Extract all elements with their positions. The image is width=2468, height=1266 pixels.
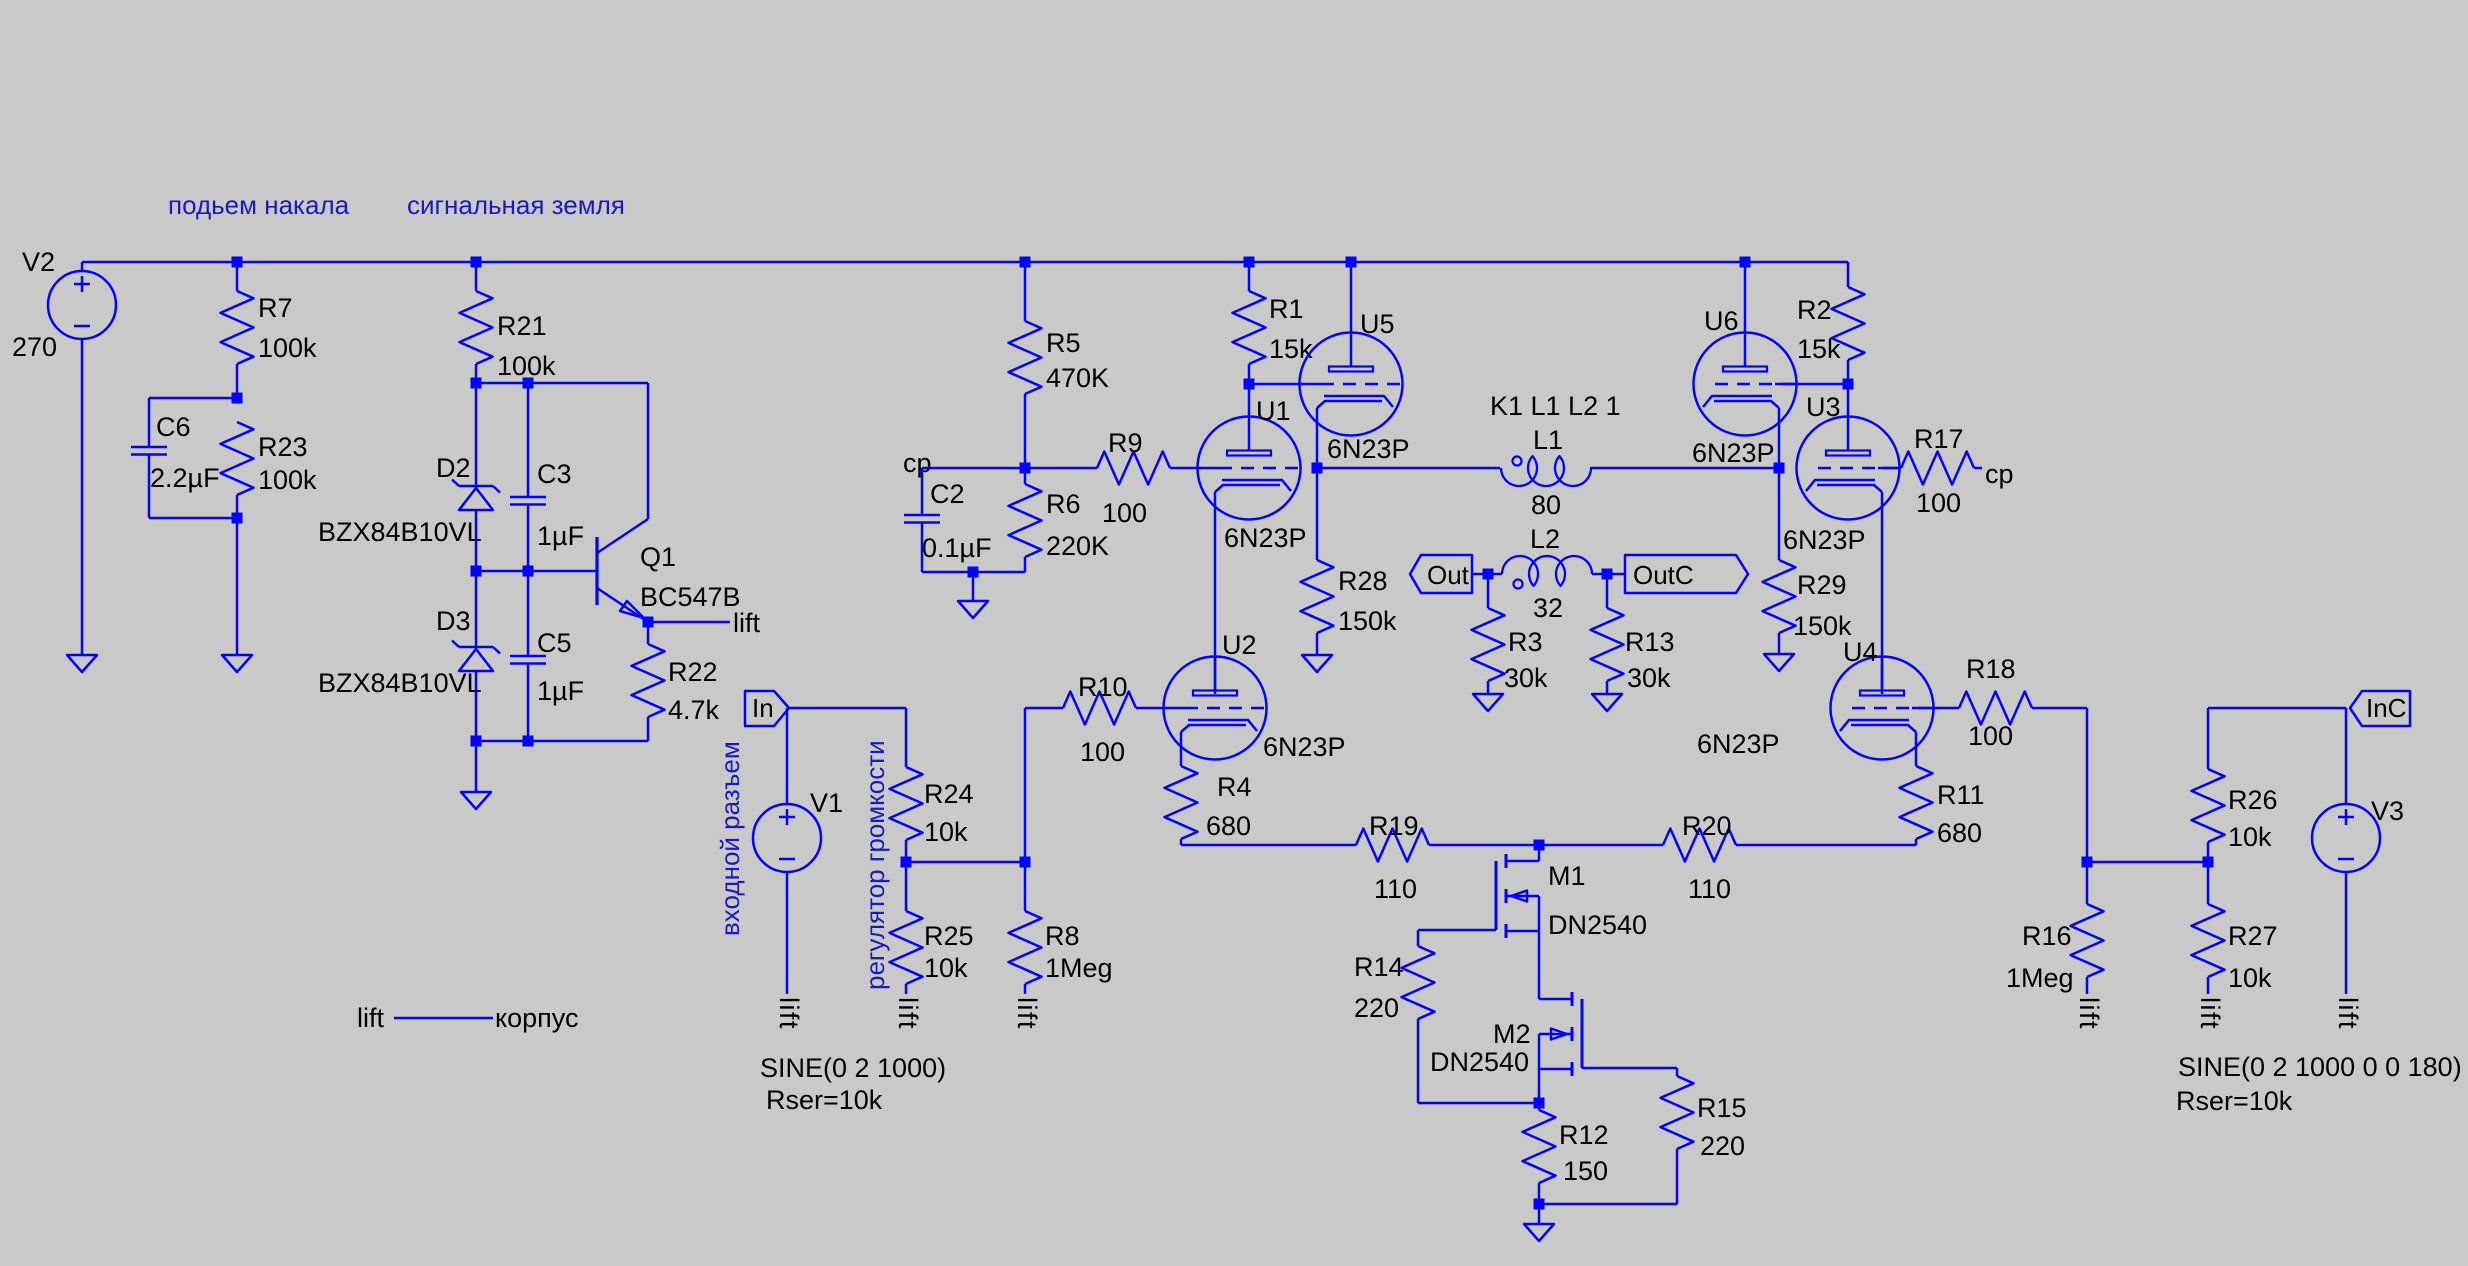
wire R21 bottom lead xyxy=(475,364,478,383)
wire bottom row to R22 xyxy=(476,740,648,743)
port flag In xyxy=(745,691,789,726)
voltage source V2 xyxy=(81,262,84,271)
node: D2/C3/base junction row xyxy=(471,566,482,577)
svg-text:R11: R11 xyxy=(1937,780,1985,810)
svg-text:подьем накала: подьем накала xyxy=(168,190,350,220)
svg-text:lift: lift xyxy=(357,1003,384,1033)
wire: main B+ bus xyxy=(82,261,1848,264)
svg-text:R18: R18 xyxy=(1966,654,2016,684)
svg-text:U2: U2 xyxy=(1222,630,1257,660)
node: R8 top junction xyxy=(1020,857,1031,868)
node: U6 cathode / L1 right junction xyxy=(1774,463,1785,474)
svg-text:Q1: Q1 xyxy=(640,542,676,572)
triode U3 grid (dashed) xyxy=(1878,467,1900,470)
svg-text:BZX84B10VL: BZX84B10VL xyxy=(318,668,482,698)
wire R26 to InC xyxy=(2208,707,2346,710)
svg-text:4.7k: 4.7k xyxy=(668,695,720,725)
node: R2/U6-grid/U3-plate junction xyxy=(1843,379,1854,390)
svg-text:DN2540: DN2540 xyxy=(1430,1047,1529,1077)
svg-text:lift: lift xyxy=(774,997,804,1030)
voltage source V1 symbol xyxy=(753,804,821,872)
wire R3 top lead xyxy=(1487,574,1490,608)
svg-text:6N23P: 6N23P xyxy=(1697,729,1780,759)
resistor R6 body xyxy=(1009,484,1042,557)
node: ground junction under C2 xyxy=(968,567,979,578)
svg-text:150: 150 xyxy=(1563,1156,1608,1186)
zener diode D3 xyxy=(459,646,493,649)
wire D3 top lead xyxy=(475,571,478,647)
wire C3 bottom lead xyxy=(527,505,530,572)
ground under R28 xyxy=(1302,655,1332,672)
resistor R7 body xyxy=(221,291,254,364)
triode U1 plate xyxy=(1227,451,1271,456)
wire R17 to cp xyxy=(1974,467,1982,470)
node: R23/C6 bottom junction xyxy=(232,513,243,524)
node: bottom junction row D3/C5/R22 xyxy=(471,736,482,747)
wire U6 cathode lead xyxy=(1778,408,1781,468)
svg-text:V2: V2 xyxy=(22,247,55,277)
svg-text:C2: C2 xyxy=(930,479,965,509)
svg-text:V1: V1 xyxy=(810,788,843,818)
svg-text:D3: D3 xyxy=(436,606,471,636)
svg-text:680: 680 xyxy=(1206,811,1251,841)
node: bus junction at U5 plate xyxy=(1346,257,1357,268)
svg-text:1Meg: 1Meg xyxy=(1045,953,1113,983)
svg-text:OutC: OutC xyxy=(1633,560,1694,590)
wire D2 top lead xyxy=(475,383,478,486)
triode U2 grid (dashed) xyxy=(1164,707,1186,710)
svg-text:V3: V3 xyxy=(2371,796,2404,826)
svg-text:R10: R10 xyxy=(1078,672,1128,702)
svg-text:BZX84B10VL: BZX84B10VL xyxy=(318,517,482,547)
svg-text:R4: R4 xyxy=(1217,772,1252,802)
svg-text:Out: Out xyxy=(1427,560,1470,590)
svg-text:2.2µF: 2.2µF xyxy=(150,463,220,493)
svg-text:R19: R19 xyxy=(1369,811,1419,841)
mosfet M2 (DN2540) xyxy=(1539,998,1572,1001)
wire U1 cathode to U2 plate xyxy=(1214,492,1217,694)
svg-text:InC: InC xyxy=(2366,693,2406,723)
node: R26/R27 junction xyxy=(2203,857,2214,868)
svg-text:6N23P: 6N23P xyxy=(1224,523,1307,553)
resistor R13 body xyxy=(1591,608,1624,681)
node: OutC junction xyxy=(1602,569,1613,580)
wire R5 bottom lead xyxy=(1024,394,1027,468)
node: bus junction at U6 plate xyxy=(1740,257,1751,268)
wire R2 bottom lead xyxy=(1847,360,1850,384)
svg-text:6N23P: 6N23P xyxy=(1263,732,1346,762)
svg-text:L1: L1 xyxy=(1533,425,1563,455)
wire U3 cathode to U4 plate xyxy=(1881,492,1884,694)
svg-text:680: 680 xyxy=(1937,818,1982,848)
svg-text:R29: R29 xyxy=(1797,570,1847,600)
svg-text:R17: R17 xyxy=(1914,424,1964,454)
triode U1 grid (dashed) xyxy=(1198,467,1220,470)
ground under R12 xyxy=(1524,1224,1554,1241)
svg-text:R23: R23 xyxy=(258,432,308,462)
svg-text:1Meg: 1Meg xyxy=(2006,963,2074,993)
wire base row to Q1 xyxy=(476,570,596,573)
svg-text:U6: U6 xyxy=(1704,306,1739,336)
wire R20 to M1 junction xyxy=(1539,844,1663,847)
wire emitter to lift label xyxy=(648,621,730,624)
svg-text:R28: R28 xyxy=(1338,566,1388,596)
wire R28 bottom lead xyxy=(1316,633,1319,655)
resistor R20 body xyxy=(1663,829,1736,862)
wire R15 bottom xyxy=(1676,1149,1679,1204)
resistor R3 body xyxy=(1472,608,1505,681)
triode U5 cathode xyxy=(1317,396,1393,408)
svg-text:10k: 10k xyxy=(2228,822,2272,852)
ground under D3 xyxy=(461,792,491,809)
capacitor C5 plates xyxy=(510,655,546,658)
svg-text:BC547B: BC547B xyxy=(640,582,741,612)
triode U4 cathode xyxy=(1840,720,1916,732)
svg-text:R16: R16 xyxy=(2022,921,2072,951)
wire R16 bottom lead xyxy=(2086,977,2089,994)
wire R8 bottom lead xyxy=(1024,984,1027,994)
svg-text:100: 100 xyxy=(1916,488,1961,518)
svg-text:R7: R7 xyxy=(258,293,293,323)
wire V1 to lift xyxy=(786,872,789,994)
svg-text:SINE(0 2 1000 0 0 180): SINE(0 2 1000 0 0 180) xyxy=(2178,1052,2462,1082)
wire M2 gate lead to R15 xyxy=(1582,1067,1677,1070)
wire Q1 collector drop xyxy=(647,383,650,519)
svg-text:R9: R9 xyxy=(1108,428,1143,458)
resistor R28 body xyxy=(1301,560,1334,633)
svg-text:100k: 100k xyxy=(258,465,317,495)
ground under V2 xyxy=(67,655,97,672)
svg-text:Rser=10k: Rser=10k xyxy=(2176,1086,2293,1116)
resistor R8 body xyxy=(1009,911,1042,984)
triode U3 plate xyxy=(1826,451,1870,456)
svg-text:регулятор громкости: регулятор громкости xyxy=(860,740,890,990)
wire In to R24 column xyxy=(789,707,906,710)
svg-text:220: 220 xyxy=(1700,1131,1745,1161)
triode U6 envelope xyxy=(1694,333,1797,436)
capacitor C5 top lead xyxy=(527,571,530,656)
node: bus junction at R1 xyxy=(1244,257,1255,268)
triode U5 envelope xyxy=(1300,333,1403,436)
svg-text:R26: R26 xyxy=(2228,785,2278,815)
wire R23 bottom lead xyxy=(236,495,239,518)
resistor R16 body xyxy=(2071,904,2104,977)
wire R7 bottom lead xyxy=(236,364,239,398)
node: R24/R25 junction xyxy=(901,857,912,868)
svg-text:cp: cp xyxy=(903,448,932,478)
wire R24 top lead xyxy=(905,708,908,767)
wire R12 top lead xyxy=(1538,1103,1541,1110)
wire R24 bottom lead xyxy=(905,840,908,862)
svg-text:DN2540: DN2540 xyxy=(1548,910,1647,940)
svg-text:C3: C3 xyxy=(537,459,572,489)
svg-text:6N23P: 6N23P xyxy=(1327,434,1410,464)
inductor L2 xyxy=(1502,556,1592,586)
wire In down to V1 xyxy=(786,708,789,804)
svg-text:220K: 220K xyxy=(1046,531,1109,561)
node: U5 cathode / L1 junction xyxy=(1312,463,1323,474)
resistor R26 body xyxy=(2192,769,2225,842)
zener diode D2 xyxy=(459,485,493,488)
wire InC down to V3 xyxy=(2345,708,2348,804)
wire R11 to R20 xyxy=(1736,844,1916,847)
wire M1 gate lead xyxy=(1418,929,1496,932)
wire R11 bottom lead xyxy=(1915,839,1918,845)
wire junction to U6 grid xyxy=(1797,383,1849,386)
svg-text:SINE(0 2 1000): SINE(0 2 1000) xyxy=(760,1053,946,1083)
svg-text:lift: lift xyxy=(893,997,923,1030)
wire R13 bottom lead xyxy=(1606,681,1609,694)
svg-text:470K: 470K xyxy=(1046,363,1109,393)
wire L2 right to OutC xyxy=(1592,573,1625,576)
svg-text:C5: C5 xyxy=(537,628,572,658)
resistor R27 body xyxy=(2192,904,2225,977)
wire bus corner to R2 xyxy=(1847,262,1850,287)
port flag InC xyxy=(2350,691,2410,726)
wire R29 top lead xyxy=(1778,468,1781,560)
wire down to ground xyxy=(236,518,239,655)
svg-text:10k: 10k xyxy=(2228,963,2272,993)
node: R7/R23/C6 junction xyxy=(232,393,243,404)
resistor R11 body xyxy=(1900,766,1933,839)
svg-text:In: In xyxy=(752,693,774,723)
resistor R23 body xyxy=(221,422,254,495)
wire R19 to M1 junction xyxy=(1429,844,1539,847)
resistor R18 body xyxy=(1959,692,2032,725)
svg-text:U1: U1 xyxy=(1256,396,1291,426)
resistor R29 body xyxy=(1763,560,1796,633)
svg-text:100k: 100k xyxy=(258,333,317,363)
wire lift to корпус xyxy=(394,1017,493,1020)
node: bottom ground junction xyxy=(1534,1199,1545,1210)
svg-text:сигнальная земля: сигнальная земля xyxy=(407,190,625,220)
node: R1/U5-grid/U1-plate junction xyxy=(1244,379,1255,390)
wire V3 to lift xyxy=(2345,872,2348,994)
svg-text:0.1µF: 0.1µF xyxy=(922,533,992,563)
wire R18 to R16 column xyxy=(2032,707,2087,710)
wire cp row xyxy=(922,467,1097,470)
wire R22 top lead xyxy=(647,622,650,644)
svg-text:lift: lift xyxy=(2074,997,2104,1030)
wire R22 bottom lead xyxy=(647,717,650,741)
triode U5 grid (dashed) xyxy=(1300,383,1322,386)
wire to ground stub xyxy=(972,572,975,601)
wire R6 bottom lead xyxy=(1024,557,1027,572)
wire to ground under D3 xyxy=(475,741,478,792)
resistor R1 body xyxy=(1233,291,1266,364)
svg-text:R27: R27 xyxy=(2228,921,2278,951)
triode U6 plate xyxy=(1723,367,1767,372)
resistor R15 body xyxy=(1661,1076,1694,1149)
svg-text:R6: R6 xyxy=(1046,489,1081,519)
resistor R22 body xyxy=(632,644,665,717)
wire junction row to R8 xyxy=(906,861,1025,864)
resistor R21 body xyxy=(460,291,493,364)
wire junction row to Q1 collector branch xyxy=(476,382,648,385)
svg-text:32: 32 xyxy=(1533,593,1563,623)
resistor R9 body xyxy=(1097,452,1170,485)
wire R13 top lead xyxy=(1606,574,1609,608)
triode U2 envelope xyxy=(1164,657,1267,760)
node: Q1 emitter junction xyxy=(643,617,654,628)
wire D3 bottom lead xyxy=(475,671,478,741)
svg-text:10k: 10k xyxy=(924,953,968,983)
wire R4 bottom lead xyxy=(1180,839,1183,845)
svg-text:R14: R14 xyxy=(1354,952,1404,982)
wire R8 junction up to R10 xyxy=(1024,708,1027,862)
wire R26 bottom lead xyxy=(2207,842,2210,862)
node: M2 source junction xyxy=(1534,1098,1545,1109)
port flag OutC xyxy=(1625,555,1748,593)
ground under R13 xyxy=(1592,694,1622,711)
svg-text:M2: M2 xyxy=(1493,1019,1531,1049)
resistor R4 body xyxy=(1165,766,1198,839)
node: bus junction at R21 xyxy=(471,257,482,268)
triode U2 cathode xyxy=(1181,720,1257,732)
wire R12 bottom lead xyxy=(1538,1183,1541,1204)
svg-text:R8: R8 xyxy=(1045,921,1080,951)
svg-text:1µF: 1µF xyxy=(537,521,584,551)
svg-text:L2: L2 xyxy=(1530,524,1560,554)
svg-text:110: 110 xyxy=(1688,874,1731,904)
wire D2 bottom lead xyxy=(475,510,478,571)
wire R25 bottom lead xyxy=(905,984,908,994)
wire U3 grid to R17 xyxy=(1900,467,1902,470)
wire R21 top lead xyxy=(475,262,478,291)
svg-text:lift: lift xyxy=(2195,997,2225,1030)
wire U2 cathode lead xyxy=(1180,732,1183,766)
wire ground stub xyxy=(1538,1204,1541,1224)
svg-text:R20: R20 xyxy=(1682,811,1732,841)
svg-text:30k: 30k xyxy=(1504,663,1548,693)
resistor R19 body xyxy=(1356,829,1429,862)
svg-text:cp: cp xyxy=(1985,459,2014,489)
capacitor C2 plates xyxy=(904,514,940,517)
resistor R14 body xyxy=(1402,946,1435,1019)
wire R5 top lead xyxy=(1024,262,1027,321)
svg-text:1µF: 1µF xyxy=(537,676,584,706)
svg-text:lift: lift xyxy=(733,608,760,638)
triode U4 plate xyxy=(1860,691,1904,696)
ground under R3 xyxy=(1473,694,1503,711)
svg-text:U4: U4 xyxy=(1843,637,1878,667)
voltage source V3 symbol xyxy=(2312,804,2380,872)
wire C2 bottom row xyxy=(922,571,1025,574)
wire junction to U5 grid xyxy=(1249,383,1300,386)
svg-text:110: 110 xyxy=(1374,874,1417,904)
svg-text:R3: R3 xyxy=(1508,627,1543,657)
ground under R29 xyxy=(1764,654,1794,671)
svg-text:lift: lift xyxy=(2333,997,2363,1030)
svg-text:R5: R5 xyxy=(1046,328,1081,358)
svg-text:C6: C6 xyxy=(156,412,191,442)
wire R8 top lead xyxy=(1024,862,1027,911)
wire junction row right xyxy=(2087,861,2208,864)
svg-text:100: 100 xyxy=(1080,737,1125,767)
wire R28 top lead xyxy=(1316,468,1319,560)
triode U2 plate xyxy=(1193,691,1237,696)
svg-text:6N23P: 6N23P xyxy=(1783,525,1866,555)
capacitor C6 plates xyxy=(131,446,167,449)
triode U1 cathode xyxy=(1215,480,1291,492)
resistor R2 body xyxy=(1832,287,1865,360)
node: Out junction xyxy=(1483,569,1494,580)
svg-text:U5: U5 xyxy=(1360,309,1395,339)
svg-text:R25: R25 xyxy=(924,921,974,951)
triode U4 envelope xyxy=(1831,657,1934,760)
resistor R12 body xyxy=(1523,1110,1556,1183)
svg-text:R21: R21 xyxy=(497,311,547,341)
capacitor C3 top lead xyxy=(527,383,530,497)
svg-text:D2: D2 xyxy=(436,453,471,483)
svg-text:220: 220 xyxy=(1354,993,1399,1023)
wire R14 bottom xyxy=(1417,1019,1420,1103)
wire R4 to R19 xyxy=(1181,844,1356,847)
wire R27 bottom lead xyxy=(2207,977,2210,994)
resistor R17 body xyxy=(1901,452,1974,485)
svg-text:входной разъем: входной разъем xyxy=(715,741,745,936)
node: M1 gate junction xyxy=(1534,840,1545,851)
svg-text:корпус: корпус xyxy=(495,1003,578,1033)
wire R25 top lead xyxy=(905,862,908,911)
triode U6 cathode xyxy=(1703,396,1779,408)
wire C5 bottom lead xyxy=(527,664,530,742)
svg-text:lift: lift xyxy=(1012,997,1042,1030)
resistor R24 body xyxy=(890,767,923,840)
resistor R10 body xyxy=(1063,692,1136,725)
node: bus junction at R7 xyxy=(232,257,243,268)
ground under C2 xyxy=(958,601,988,618)
ground under R23 xyxy=(222,655,252,672)
wire C6 bottom xyxy=(148,455,151,519)
svg-text:R24: R24 xyxy=(924,779,974,809)
svg-text:6N23P: 6N23P xyxy=(1692,438,1775,468)
wire U4 grid to R18 xyxy=(1934,707,1960,710)
svg-text:100: 100 xyxy=(1102,498,1147,528)
wire R9 to U1 grid xyxy=(1170,467,1198,470)
svg-text:100k: 100k xyxy=(497,351,556,381)
wire L1 left xyxy=(1317,467,1500,470)
svg-text:150k: 150k xyxy=(1338,606,1397,636)
transistor Q1 (NPN BC547B) xyxy=(595,537,598,605)
wire L1 right xyxy=(1590,467,1779,470)
svg-text:R1: R1 xyxy=(1269,294,1304,324)
svg-text:U3: U3 xyxy=(1806,392,1841,422)
svg-text:R13: R13 xyxy=(1625,627,1675,657)
wire R3 bottom lead xyxy=(1487,681,1490,694)
resistor R25 body xyxy=(890,911,923,984)
node: R16 junction xyxy=(2082,857,2093,868)
port flag Out xyxy=(1410,555,1472,593)
mosfet M1 (DN2540) xyxy=(1538,845,1541,861)
svg-text:R2: R2 xyxy=(1797,295,1832,325)
triode U3 cathode xyxy=(1806,480,1882,492)
wire R6 top lead xyxy=(1024,468,1027,484)
triode U4 grid (dashed) xyxy=(1912,707,1934,710)
triode U5 plate xyxy=(1329,367,1373,372)
svg-text:R15: R15 xyxy=(1697,1093,1747,1123)
svg-text:15k: 15k xyxy=(1797,334,1841,364)
capacitor C3 plates xyxy=(510,496,546,499)
svg-text:R22: R22 xyxy=(668,657,718,687)
wire to R10 left xyxy=(1025,707,1063,710)
triode U1 envelope xyxy=(1198,417,1301,520)
svg-text:270: 270 xyxy=(12,332,57,362)
node: R21/D2/C3 junction xyxy=(471,378,482,389)
triode U6 grid (dashed) xyxy=(1775,383,1797,386)
wire Out to junction xyxy=(1472,573,1502,576)
wire R26 top lead xyxy=(2207,708,2210,769)
